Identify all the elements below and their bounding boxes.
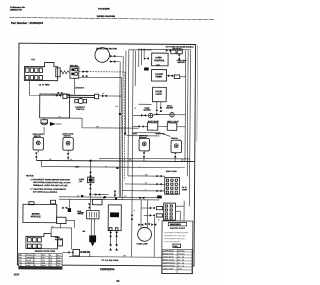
svg-text:TGO356MW: TGO356MW: [98, 9, 110, 11]
svg-text:ROTARY: ROTARY: [139, 136, 147, 139]
svg-text:TERMINALS. CHECK POLARITY OF L: TERMINALS. CHECK POLARITY OF LINE.: [33, 184, 68, 187]
svg-text:3.2 - 3.6: 3.2 - 3.6: [178, 259, 184, 261]
svg-text:1. DISCONNECT POWER BEFORE SE: 1. DISCONNECT POWER BEFORE SERVICING: [30, 179, 70, 181]
svg-text:TIMER: TIMER: [155, 76, 162, 78]
svg-text:SPARK: SPARK: [32, 213, 40, 216]
svg-text:2. * INDICATES OPTIONAL COMPO: 2. * INDICATES OPTIONAL COMPONENTS: [30, 188, 66, 191]
svg-text:IGNITER BROIL: IGNITER BROIL: [163, 265, 176, 267]
svg-text:24 IN.: 24 IN.: [133, 133, 138, 135]
svg-text:WARNING: WARNING: [170, 223, 181, 226]
svg-text:BAKE VALVE: BAKE VALVE: [148, 120, 160, 123]
svg-text:FLAME SW: FLAME SW: [80, 250, 90, 253]
svg-text:P23: P23: [31, 59, 34, 61]
svg-text:NOT USED ON ALL MODELS.: NOT USED ON ALL MODELS.: [33, 191, 58, 194]
svg-text:3.3 - 3.6: 3.3 - 3.6: [178, 265, 184, 267]
svg-text:OVEN LAMP: OVEN LAMP: [163, 267, 174, 270]
svg-text:DISCONNECT POWER BEFORE: DISCONNECT POWER BEFORE: [164, 232, 188, 234]
svg-text:BROIL VALVE: BROIL VALVE: [167, 120, 179, 123]
svg-text:115 VAC: 115 VAC: [178, 252, 185, 255]
svg-text:SWITCH: SWITCH: [171, 138, 179, 140]
svg-text:WIRING DIAGRAM: WIRING DIAGRAM: [97, 15, 116, 18]
svg-text:USE COPPER CONDUCTORS ONLY AT: USE COPPER CONDUCTORS ONLY AT UNIT: [33, 181, 71, 184]
svg-text:ELECTRIC SHOCK: ELECTRIC SHOCK: [170, 228, 186, 230]
svg-text:COMPONENT: COMPONENT: [163, 250, 175, 252]
svg-text:OVEN LAMP: OVEN LAMP: [137, 242, 149, 245]
svg-text:16: 16: [116, 279, 120, 283]
svg-text:WIRING COLOR CODE: WIRING COLOR CODE: [35, 251, 56, 253]
svg-text:SENSOR: SENSOR: [177, 62, 185, 64]
svg-text:P24 J24: P24 J24: [70, 64, 79, 67]
svg-text:BROIL VALVE: BROIL VALVE: [163, 258, 175, 261]
svg-text:40 W: 40 W: [178, 267, 182, 270]
svg-text:ESEC CONN: ESEC CONN: [166, 171, 177, 173]
svg-text:LINE: LINE: [75, 166, 80, 168]
svg-text:OVEN: OVEN: [78, 212, 84, 214]
svg-text:OVEN VALVE: OVEN VALVE: [163, 255, 175, 258]
svg-text:L1 N GND: L1 N GND: [39, 84, 50, 86]
svg-text:BLACK: BLACK: [27, 254, 34, 257]
svg-text:3.3 - 3.6: 3.3 - 3.6: [178, 262, 184, 264]
svg-text:LOCKOUT: LOCKOUT: [75, 87, 85, 89]
svg-text:IGNITER BAKE: IGNITER BAKE: [163, 261, 176, 264]
svg-text:SERVICING UNIT. USE ONLY: SERVICING UNIT. USE ONLY: [164, 235, 186, 237]
svg-text:01/07: 01/07: [14, 274, 20, 276]
svg-text:DOOR LOCK MOTOR: DOOR LOCK MOTOR: [96, 48, 117, 50]
svg-text:SPARK MOD: SPARK MOD: [163, 252, 174, 255]
svg-text:SWITCH: SWITCH: [76, 109, 84, 111]
svg-text:IGNITER: IGNITER: [166, 107, 174, 109]
svg-text:TO J1 & P52 CONN: TO J1 & P52 CONN: [101, 260, 119, 262]
svg-text:CONTROL: CONTROL: [154, 60, 165, 62]
svg-text:NOTES:: NOTES:: [26, 175, 34, 177]
svg-text:OVEN: OVEN: [155, 57, 162, 59]
svg-text:Part Number : 316902204: Part Number : 316902204: [11, 21, 43, 25]
svg-text:RATING: RATING: [178, 249, 185, 252]
svg-text:IGNITER: IGNITER: [55, 239, 63, 241]
svg-text:BL: BL: [103, 198, 105, 200]
svg-text:3.2 - 3.6: 3.2 - 3.6: [178, 256, 184, 258]
svg-text:5995417755: 5995417755: [10, 8, 22, 11]
svg-text:CONN: CONN: [182, 189, 188, 191]
svg-text:316902204: 316902204: [100, 267, 115, 271]
svg-text:IGNITER: IGNITER: [144, 110, 152, 112]
svg-text:LOCK: LOCK: [156, 94, 163, 96]
svg-text:MODULE: MODULE: [31, 216, 41, 218]
